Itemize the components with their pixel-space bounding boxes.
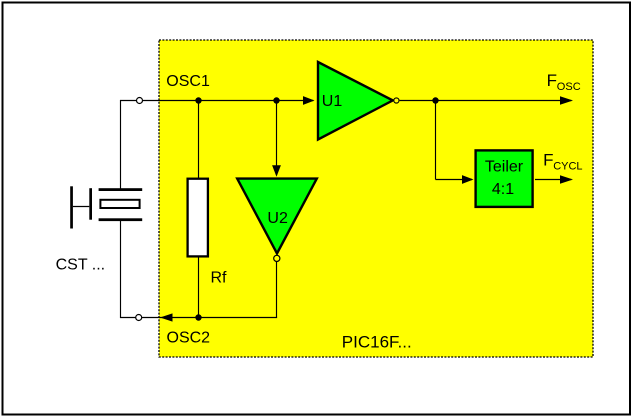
svg-text:CYCL: CYCL (553, 161, 582, 173)
svg-text:OSC: OSC (557, 81, 581, 93)
svg-text:U1: U1 (322, 93, 343, 110)
svg-text:PIC16F...: PIC16F... (342, 333, 412, 352)
svg-text:OSC1: OSC1 (166, 73, 210, 90)
svg-text:Rf: Rf (211, 270, 228, 287)
svg-text:Teiler: Teiler (485, 159, 524, 176)
svg-text:U2: U2 (267, 210, 288, 227)
svg-text:4:1: 4:1 (492, 181, 514, 198)
svg-text:OSC2: OSC2 (167, 329, 211, 346)
svg-text:F: F (547, 71, 557, 90)
svg-text:CST ...: CST ... (56, 256, 106, 273)
svg-text:F: F (543, 150, 553, 169)
